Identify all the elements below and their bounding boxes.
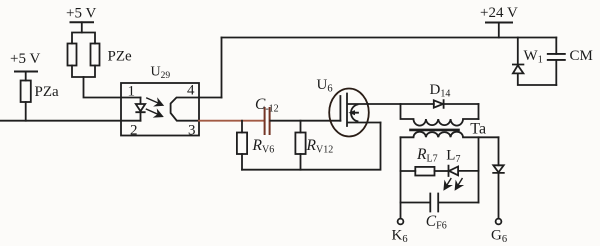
transistor U6 MOSFET <box>329 89 369 137</box>
svg-text:+5 V: +5 V <box>10 51 40 67</box>
transformer core <box>411 129 459 132</box>
diode G6 branch <box>493 165 504 173</box>
pin 4 wire <box>199 97 222 99</box>
capacitor C-12 <box>265 108 270 134</box>
wire <box>25 102 27 121</box>
wire <box>555 60 557 85</box>
wire <box>241 154 243 170</box>
photodetector inside U29 <box>171 98 199 121</box>
wire secondary left to K6 <box>400 137 402 218</box>
diode D14 <box>434 100 444 108</box>
svg-text:U6: U6 <box>317 77 333 95</box>
capacitor CM <box>548 54 565 60</box>
wire <box>435 170 449 172</box>
terminal G6 <box>496 219 502 225</box>
diode W1 (zener up) <box>513 65 524 74</box>
wire <box>498 23 500 38</box>
wire node RV6 <box>241 121 243 133</box>
transformer Ta primary <box>401 104 479 126</box>
capacitor CF6 <box>430 194 438 212</box>
wire <box>25 72 27 81</box>
wire riser +24V to primary <box>478 104 480 119</box>
wire to pin 1 <box>84 77 141 98</box>
wire inner right vertical <box>478 137 480 202</box>
svg-text:3: 3 <box>188 123 196 139</box>
svg-text:CF6: CF6 <box>426 213 447 232</box>
resistor RV12 <box>295 133 305 155</box>
wire L7 branch left <box>401 170 416 172</box>
svg-text:CM: CM <box>570 48 593 64</box>
wire gate <box>270 120 340 122</box>
wire left rail to U29 pin 2 <box>0 120 141 122</box>
wire drain to D14 <box>368 103 434 105</box>
wire bottom sub rail <box>242 123 381 170</box>
svg-text:U29: U29 <box>151 65 171 81</box>
power +5V symbol (PZe) <box>71 21 94 23</box>
wire riser to +24V rail <box>221 38 223 98</box>
power +24V symbol <box>486 22 512 24</box>
svg-text:C-12: C-12 <box>255 96 279 115</box>
svg-text:D14: D14 <box>430 82 451 100</box>
svg-text:RL7: RL7 <box>416 146 438 165</box>
svg-text:RV6: RV6 <box>252 137 275 156</box>
svg-text:G6: G6 <box>491 228 507 246</box>
LED light arrows <box>146 98 162 117</box>
resistor RV6 <box>237 133 247 155</box>
svg-text:2: 2 <box>130 123 138 139</box>
photo arrows L7 <box>444 179 462 190</box>
substrate arrow U6 <box>351 105 358 122</box>
svg-text:PZe: PZe <box>108 49 133 65</box>
wire node PZe bottom <box>72 66 95 78</box>
resistor PZe right <box>91 44 100 66</box>
transformer Ta secondary <box>401 132 499 138</box>
wire node RV12 <box>300 121 302 133</box>
svg-text:K6: K6 <box>392 228 408 246</box>
resistor RL7 <box>415 167 434 176</box>
svg-text:PZa: PZa <box>35 84 60 100</box>
svg-text:W1: W1 <box>524 48 543 66</box>
wire <box>300 154 302 170</box>
svg-text:1: 1 <box>128 84 136 100</box>
wire node PZe top <box>72 33 95 44</box>
LED inside U29 <box>136 98 145 121</box>
terminal K6 <box>398 219 404 225</box>
diode L7 <box>449 166 479 176</box>
wire <box>444 103 479 105</box>
wire W1 branch <box>517 38 519 65</box>
pin 3 wire (red) <box>199 120 264 122</box>
wire <box>81 22 83 32</box>
svg-text:+24 V: +24 V <box>480 5 518 21</box>
svg-text:4: 4 <box>187 83 195 99</box>
wire CF6 branch <box>401 202 479 204</box>
wire +24V top rail <box>222 37 557 39</box>
wire CM branch <box>555 38 557 54</box>
wire <box>498 173 500 219</box>
svg-text:Ta: Ta <box>470 121 486 138</box>
op-amp U29 optocoupler box <box>121 83 199 136</box>
wire Ta to G6 branch <box>498 137 500 165</box>
resistor PZe left <box>68 44 77 66</box>
svg-text:+5 V: +5 V <box>66 6 96 22</box>
power +5V symbol (PZa) <box>15 71 37 73</box>
wire <box>518 73 557 85</box>
svg-text:RV12: RV12 <box>306 137 334 156</box>
svg-text:L7: L7 <box>446 147 460 165</box>
resistor PZa <box>21 81 31 103</box>
